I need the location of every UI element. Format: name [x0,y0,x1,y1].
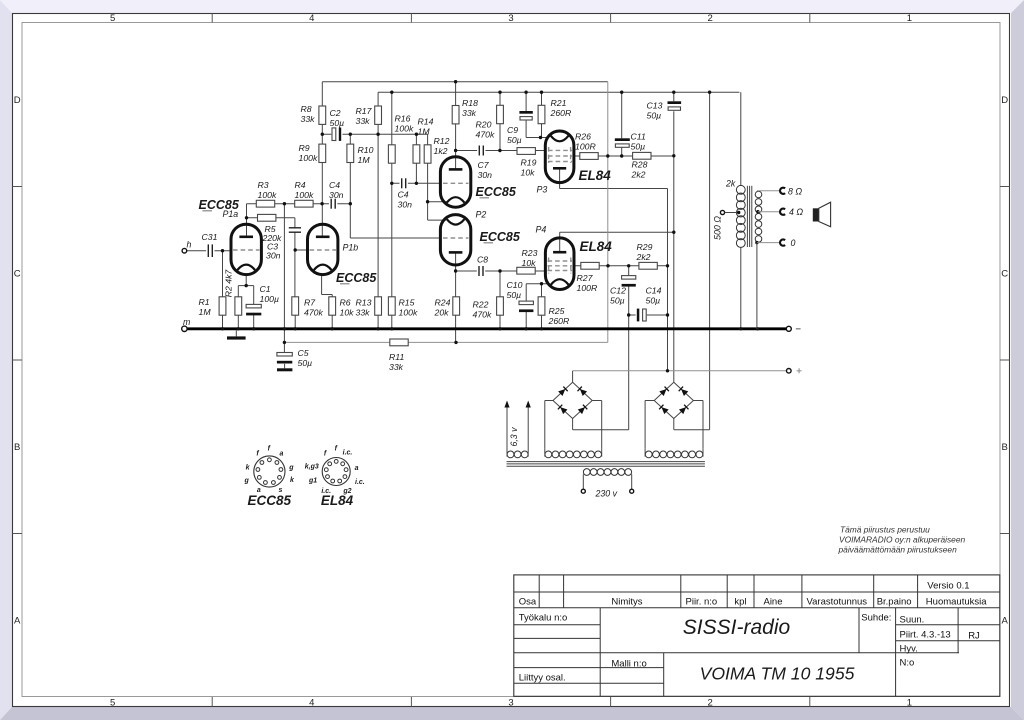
svg-text:1: 1 [907,13,912,24]
svg-text:33k: 33k [301,114,316,124]
svg-text:50µ: 50µ [298,358,313,368]
svg-text:P3: P3 [537,185,548,195]
svg-text:1M: 1M [199,307,212,317]
svg-text:Osa: Osa [519,596,537,607]
svg-text:A: A [14,616,21,627]
wire bridge2 AC right [693,400,703,402]
svg-text:230 v: 230 v [595,489,618,499]
speaker output 8 ohm [757,190,779,192]
svg-text:6,3 v: 6,3 v [509,427,519,447]
svg-text:0: 0 [791,238,796,248]
wire bridge1 minus horizontal [573,429,629,431]
svg-text:Aine: Aine [763,596,782,607]
svg-text:C: C [14,269,21,280]
svg-text:C5: C5 [298,348,309,358]
svg-text:R12: R12 [434,136,450,146]
svg-text:k,g3: k,g3 [305,463,319,470]
capacitor C2 50u [331,127,342,142]
vertical R9 to P1b plate [321,163,323,237]
resistor R1 1M [219,297,226,315]
vertical C3 top lead [294,218,296,228]
zone ticks bottom [211,697,213,707]
svg-text:g1: g1 [308,478,317,485]
vertical C5 column [283,204,285,353]
wire P1a cathode link [238,285,253,287]
wire B+ rail 2 [378,91,739,93]
terminal 230V right [630,489,634,493]
vertical R25 leads [541,284,543,297]
vertical R21 leads [541,92,543,105]
svg-text:Suun.: Suun. [900,614,925,625]
svg-text:C2: C2 [330,108,341,118]
svg-text:260R: 260R [548,316,570,326]
vertical R16-R15 column [391,92,393,145]
svg-text:h: h [187,240,192,250]
resistor R27 100R [581,262,599,269]
svg-text:R14: R14 [418,117,434,127]
title block grid [514,575,1000,696]
triode V2a ECC85 [440,157,470,207]
speaker [813,208,819,221]
capacitor C4 30n second [400,177,408,189]
vertical P1a plate lead [246,204,248,237]
svg-text:R9: R9 [299,143,310,153]
svg-text:30n: 30n [329,190,344,200]
svg-text:D: D [1001,95,1008,106]
resistor R8 33k [319,106,326,124]
pentode P4 EL84 [545,238,574,290]
svg-text:C12: C12 [610,286,626,296]
resistor R18 33k [452,106,459,124]
plus terminal [787,369,792,374]
vertical C12-C14 to bridge1 minus [628,266,630,276]
vertical screen feed column [607,82,609,343]
svg-text:8 Ω: 8 Ω [788,187,802,197]
capacitor C11 50u [615,138,630,141]
svg-text:R21: R21 [551,98,567,108]
svg-text:R1: R1 [199,297,210,307]
svg-text:i.c.: i.c. [343,450,353,457]
svg-text:10k: 10k [521,168,536,178]
svg-text:Piir. n:o: Piir. n:o [686,596,718,607]
NFB line R11 [284,341,607,343]
wire V2b cathode tie [428,219,446,221]
svg-text:100k: 100k [399,308,418,318]
wire P4 cathode line [526,283,549,285]
svg-text:m: m [183,317,190,327]
transformer T2 HT winding 1 [545,451,552,458]
svg-text:50µ: 50µ [646,296,661,306]
svg-text:C1: C1 [260,284,271,294]
wire C3 to P1b grid [295,249,308,251]
svg-text:R19: R19 [521,158,537,168]
resistor R20 470k [497,105,504,123]
vertical P1a cathode lead [245,274,247,285]
svg-text:Br.paino: Br.paino [877,596,912,607]
svg-text:R16: R16 [395,114,411,124]
page bevel border [0,0,1024,13]
svg-text:C13: C13 [647,101,663,111]
svg-text:5: 5 [110,698,115,709]
ground below C5 [284,364,286,369]
svg-text:R29: R29 [637,242,653,252]
vertical P4 plate lead [559,232,561,252]
svg-text:R11: R11 [389,352,404,362]
svg-text:Malli n:o: Malli n:o [611,658,646,669]
svg-text:C4: C4 [329,180,340,190]
vertical R18 to V2a plate [455,82,457,106]
svg-text:EL84: EL84 [321,493,354,508]
capacitor C1 100u [246,304,261,308]
vertical P1b cathode lead [321,274,323,294]
socket diagram EL84 [322,458,350,486]
svg-text:100k: 100k [395,124,414,134]
resistor R17 33k [375,106,382,124]
svg-text:1M: 1M [358,155,371,165]
transformer T1 secondary winding [755,191,762,198]
svg-text:R25: R25 [549,306,565,316]
vertical R22 leads [499,271,501,297]
svg-text:C10: C10 [507,280,523,290]
svg-text:100k: 100k [299,153,318,163]
capacitor C12 50u [622,276,636,280]
svg-text:C31: C31 [202,232,218,242]
svg-text:SISSI-radio: SISSI-radio [683,616,791,639]
capacitor C31 [206,243,214,258]
resistor R11 33k [390,339,408,346]
svg-text:P1a: P1a [223,209,239,219]
svg-text:33k: 33k [356,116,371,126]
capacitor C10 50u [519,301,533,305]
svg-text:R3: R3 [258,180,269,190]
triode P1b ECC85 [308,224,338,274]
svg-text:R4: R4 [295,180,306,190]
svg-text:R7: R7 [304,298,316,308]
svg-text:2: 2 [708,698,713,709]
capacitor C7 30n [477,145,485,157]
capacitor C9 50u [519,111,532,114]
svg-text:R23: R23 [522,248,538,258]
resistor R22 470k [497,297,504,315]
svg-text:50µ: 50µ [610,296,625,306]
svg-text:R15: R15 [399,298,415,308]
svg-text:C: C [1001,269,1008,280]
transformer T2 6.3V winding [507,451,514,458]
svg-text:1k2: 1k2 [434,146,448,156]
svg-text:C9: C9 [507,125,518,135]
svg-text:100R: 100R [575,142,596,152]
svg-text:Suhde:: Suhde: [861,612,891,623]
resistor R29 2k2 [639,262,657,269]
svg-text:D: D [14,95,21,106]
svg-text:100µ: 100µ [260,294,280,304]
svg-text:A: A [1002,616,1009,627]
wire P3 plate line [560,188,668,190]
resistor R25 260R [538,297,545,315]
svg-text:4 Ω: 4 Ω [789,207,803,217]
pentode P3 EL84 [545,131,574,183]
ground bus [187,327,787,330]
svg-text:RJ: RJ [968,630,980,641]
svg-text:R6: R6 [340,298,351,308]
input terminal m [182,326,187,331]
svg-text:R8: R8 [301,104,312,114]
resistor R24 20k [453,297,460,315]
vertical P3 plate lead [559,169,561,188]
wire bridge1 bottom [572,419,574,430]
svg-text:C7: C7 [478,160,490,170]
svg-text:P1b: P1b [343,243,359,253]
wire secondary 0 to bus [756,243,758,329]
svg-text:g: g [244,478,250,485]
svg-text:1M: 1M [418,127,431,137]
triode V2b ECC85 [440,215,470,265]
svg-text:ECC85: ECC85 [476,185,517,199]
svg-text:33k: 33k [356,308,371,318]
svg-text:1: 1 [907,698,912,709]
resistor R5 220k [258,214,276,221]
resistor R9 100k [319,144,326,162]
resistor R16 100k [388,145,395,163]
vertical R10 column [349,134,351,144]
resistor R15 100k [388,297,395,315]
resistor R3 100k [256,200,274,207]
vertical P3 plate feed column [667,189,669,371]
svg-text:Piirt. 4.3.-13: Piirt. 4.3.-13 [900,629,951,640]
svg-text:3: 3 [508,13,513,24]
transformer T1 primary winding 2k [736,185,745,194]
svg-text:20k: 20k [434,308,450,318]
terminal 230V left [581,489,585,493]
svg-text:R22: R22 [473,300,489,310]
svg-text:R13: R13 [356,298,372,308]
svg-text:Huomautuksia: Huomautuksia [926,596,987,607]
transformer T1 500 ohm tap [720,210,724,214]
svg-text:50µ: 50µ [507,135,522,145]
svg-text:10k: 10k [522,258,537,268]
resistor R6 10k [329,297,336,315]
svg-text:VOIMARADIO oy:n alkuperäiseen: VOIMARADIO oy:n alkuperäiseen [839,535,965,545]
vertical C9 leads [525,92,527,111]
zone ticks right [1000,186,1010,188]
svg-text:R18: R18 [462,98,478,108]
rectifier bridge B2 [654,382,674,400]
wire P4 plate line [560,231,674,233]
triode P1a ECC85 [231,224,261,274]
svg-text:VOIMA TM 10 1955: VOIMA TM 10 1955 [700,664,855,684]
svg-text:50µ: 50µ [647,111,662,121]
capacitor C13 50u [668,101,682,104]
wire P3 screen line [574,155,674,157]
svg-text:10k: 10k [340,308,355,318]
svg-text:ECC85: ECC85 [336,271,377,285]
bus terminal minus [786,326,791,331]
vertical bridge2 plus to rail [709,92,711,430]
resistor R21 260R [538,105,545,123]
speaker output 4 ohm [756,210,759,213]
svg-text:Nimitys: Nimitys [611,596,642,607]
vertical R14 leads [415,134,417,145]
resistor R4 100k [295,200,313,207]
capacitor C14 50u [636,308,647,322]
svg-text:2k2: 2k2 [636,252,651,262]
transformer T2 230V primary [583,469,590,476]
svg-text:30n: 30n [266,250,281,260]
input terminal h [182,248,187,253]
wire C2 line [322,133,428,135]
wire C8 line [456,270,546,272]
transformer T2 core [507,461,705,463]
wire bridge2 plus horizontal [674,429,710,431]
wire P4 screen line [574,265,668,267]
resistor R14 1M [413,145,420,163]
rectifier bridge B1 [553,382,573,400]
vertical R8 column [321,82,323,106]
wire V2a grid line [392,182,441,184]
resistor R7 470k [292,297,299,315]
svg-text:i.c.: i.c. [355,479,365,486]
resistor R10 1M [347,144,354,162]
svg-text:Hyv.: Hyv. [900,643,918,654]
svg-text:50µ: 50µ [631,142,646,152]
ground below R2 [235,330,237,336]
capacitor C3 30n plates [289,227,301,229]
svg-text:100R: 100R [577,283,598,293]
wire P3 grid line [456,150,546,152]
svg-text:470k: 470k [476,130,495,140]
wire bridge1 AC left [545,400,553,402]
vertical C10 leads [525,284,527,301]
svg-text:a: a [355,465,359,472]
vertical C13 B+ column [673,92,675,101]
vertical R17-R13 column [377,92,379,106]
svg-text:4: 4 [309,13,314,24]
svg-text:C11: C11 [631,132,646,142]
svg-text:R2 4k7: R2 4k7 [224,269,234,298]
vertical OPT primary feed [740,92,742,186]
svg-text:EL84: EL84 [580,239,613,254]
svg-text:30n: 30n [478,170,493,180]
svg-text:Varastotunnus: Varastotunnus [807,596,868,607]
svg-text:470k: 470k [473,310,492,320]
vertical C1 leads [253,286,255,305]
svg-text:470k: 470k [304,308,323,318]
wire bridge1 AC right [592,400,602,402]
resistor R23 10k [517,267,535,274]
resistor R12 1k2 [424,145,431,163]
svg-text:R28: R28 [632,160,648,170]
vertical R1 leads [222,251,224,297]
svg-text:R20: R20 [476,120,492,130]
vertical C3 bottom R7 column [294,233,296,297]
resistor R2 4k7 [235,297,242,315]
svg-text:2k: 2k [725,179,736,189]
svg-text:päiväämättömään piirustukseen: päiväämättömään piirustukseen [838,544,958,554]
svg-text:50µ: 50µ [330,118,345,128]
wire R5 plate line [247,217,295,219]
svg-text:33k: 33k [389,362,404,372]
vertical R6 leads [331,295,333,297]
resistor R13 33k [375,297,382,315]
zone ticks left [13,186,23,188]
svg-text:4: 4 [309,698,314,709]
svg-text:kpl: kpl [734,596,746,607]
svg-text:Versio 0.1: Versio 0.1 [927,580,969,591]
vertical R2 leads [237,286,239,297]
wire P3 cathode line [526,137,548,139]
plus supply line [573,370,787,372]
resistor R26 100R [580,153,598,160]
svg-text:ECC85: ECC85 [248,493,292,508]
wire B+ rail 1 [322,81,608,83]
svg-text:g: g [288,464,294,471]
svg-text:C14: C14 [646,286,662,296]
wire input grid line [187,250,231,252]
resistor R28 2k2 [633,152,651,159]
svg-text:ECC85: ECC85 [480,230,521,244]
svg-text:N:o: N:o [900,657,915,668]
svg-text:500 Ω: 500 Ω [713,216,723,240]
wire V2a cathode tie [428,201,447,203]
wire V2b grid line [350,237,441,239]
capacitor C5 50u [277,353,292,357]
svg-text:50µ: 50µ [507,290,522,300]
wire R3-R4-C4 line [247,203,351,205]
vertical V2b plate to R24 to NFB [455,252,457,296]
svg-text:Liittyy osal.: Liittyy osal. [519,672,566,683]
svg-text:B: B [14,442,20,453]
transformer T2 HT winding 2 [645,451,652,458]
svg-text:EL84: EL84 [579,168,612,183]
svg-text:30n: 30n [398,200,413,210]
speaker output 0 [755,241,758,244]
svg-text:P2: P2 [476,210,487,220]
svg-text:R26: R26 [575,132,591,142]
svg-text:R24: R24 [435,298,451,308]
vertical C11 leads [621,92,623,138]
wire P1b cathode jog [322,294,333,296]
junction dots [454,80,457,83]
wire bridge2 bottom [673,419,675,430]
svg-text:Työkalu n:o: Työkalu n:o [519,612,568,623]
wire bridge2 AC left [645,400,654,402]
vertical R12 column [427,134,429,145]
transformer T1 OPT core [746,186,748,247]
capacitor C8 [477,265,485,277]
svg-text:R17: R17 [356,106,373,116]
svg-text:2k2: 2k2 [631,170,646,180]
capacitor C4 30n first [329,198,337,210]
svg-text:2: 2 [708,13,713,24]
vertical R20 leads [499,92,501,105]
vertical OPT primary bottom to bus [740,247,742,329]
svg-text:100k: 100k [258,190,277,200]
svg-text:C4: C4 [398,190,409,200]
svg-text:Tämä piirustus perustuu: Tämä piirustus perustuu [840,525,930,535]
svg-text:5: 5 [110,13,115,24]
svg-text:R27: R27 [577,273,594,283]
svg-text:a: a [280,450,284,457]
svg-text:P4: P4 [536,225,547,235]
wire C14 link [629,314,668,316]
svg-text:260R: 260R [550,108,572,118]
svg-text:B: B [1002,442,1008,453]
svg-text:33k: 33k [462,108,477,118]
svg-text:100k: 100k [295,190,314,200]
svg-text:R10: R10 [358,145,374,155]
svg-text:3: 3 [508,698,513,709]
socket diagram ECC85 [254,456,285,487]
